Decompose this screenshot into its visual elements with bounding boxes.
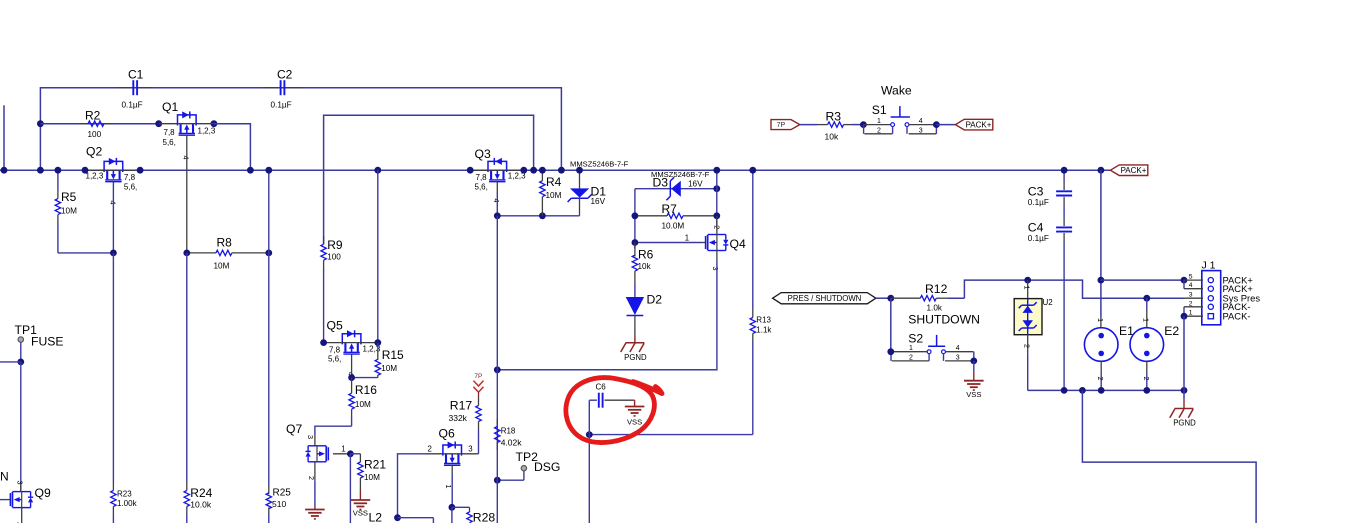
node C1 line left — [37, 167, 44, 174]
node R7 left — [632, 212, 639, 219]
svg-text:1: 1 — [1142, 318, 1151, 322]
node Q6 pin2 bottom — [394, 514, 401, 521]
svg-text:VSS: VSS — [966, 390, 981, 399]
svg-text:PGND: PGND — [1173, 419, 1196, 428]
text L2 — [369, 511, 383, 523]
wire D3 sub right vertical — [716, 170, 718, 228]
power VSS at R21 — [351, 500, 371, 518]
node PACK+ down rail — [1098, 167, 1105, 174]
resistor R15 — [375, 343, 404, 378]
node E2 pin1 junction — [1143, 295, 1150, 302]
node Q7 pin1 junction — [347, 450, 354, 457]
wire Q6 pin1 — [451, 465, 453, 507]
svg-text:R13: R13 — [756, 316, 771, 325]
resistor R23 — [111, 482, 138, 523]
node rail-left — [1, 167, 8, 174]
svg-text:10M: 10M — [546, 191, 562, 200]
svg-text:R12: R12 — [925, 282, 948, 296]
wire rail to Q5 — [377, 170, 379, 342]
node Q1 right — [211, 120, 218, 127]
net label PACK+ at S1 — [955, 119, 992, 130]
svg-text:5,6,: 5,6, — [328, 355, 341, 364]
wire D3 line — [635, 188, 717, 190]
wire C1-C2 top line — [40, 88, 561, 171]
svg-text:PRES / SHUTDOWN: PRES / SHUTDOWN — [788, 294, 862, 303]
svg-text:C6: C6 — [596, 382, 607, 391]
resistor R17 — [449, 397, 482, 454]
svg-text:1: 1 — [877, 118, 881, 125]
svg-text:2: 2 — [1142, 377, 1151, 381]
node Q5 right — [374, 339, 381, 346]
text N label — [0, 470, 9, 484]
svg-text:1: 1 — [444, 485, 453, 489]
node R4 bottom — [539, 212, 546, 219]
node hump-rail junction — [530, 167, 537, 174]
wire C6 node down — [588, 435, 590, 523]
wire J1 to PGND — [1183, 316, 1185, 408]
node bottom rail left — [494, 366, 501, 373]
node S2 right — [970, 358, 977, 365]
svg-text:16V: 16V — [688, 180, 703, 189]
node J1 pin5 junction — [1181, 277, 1188, 284]
wire Q9 pin2 down — [21, 508, 23, 523]
net label PRES/SHUTDOWN — [773, 293, 876, 304]
svg-text:7,8: 7,8 — [476, 173, 488, 182]
node R7 right — [713, 212, 720, 219]
power VSS at S2 — [964, 361, 984, 399]
transistor Q6 — [425, 427, 473, 489]
wire D3 sub left vertical — [634, 189, 636, 249]
resistor R18 — [495, 419, 523, 450]
node TP2 junction — [494, 477, 501, 484]
svg-text:3: 3 — [306, 435, 315, 439]
svg-text:10M: 10M — [355, 400, 371, 409]
svg-text:2: 2 — [428, 445, 432, 454]
svg-text:1: 1 — [909, 345, 913, 352]
wire Q7 pin1 — [333, 453, 350, 455]
svg-text:7,8: 7,8 — [329, 345, 341, 354]
wire PRES down to S2 — [890, 298, 892, 352]
transistor Q3 — [470, 147, 526, 203]
node Q1 left — [155, 120, 162, 127]
svg-text:U2: U2 — [1043, 298, 1054, 307]
transistor Q9 — [10, 481, 51, 523]
svg-text:7P: 7P — [474, 373, 482, 380]
svg-text:10M: 10M — [214, 262, 230, 271]
transistor Q7 — [286, 422, 346, 480]
node rail PGND — [1181, 387, 1188, 394]
component E1 — [1084, 317, 1134, 390]
wire Q5 left — [324, 342, 343, 344]
net label 7P — [771, 120, 800, 130]
wire Q4 pin2 — [716, 216, 718, 235]
svg-text:VSS: VSS — [627, 417, 642, 426]
svg-text:R24: R24 — [190, 486, 212, 500]
wire J1 pin4 tie — [1183, 280, 1185, 289]
capacitor C6 — [589, 382, 634, 434]
node R8 right — [265, 250, 272, 257]
svg-text:J 1: J 1 — [1202, 259, 1216, 271]
svg-text:1.00k: 1.00k — [117, 499, 138, 508]
svg-text:1: 1 — [1189, 310, 1193, 317]
wire R13 to C6 node — [589, 434, 753, 436]
svg-text:10.0M: 10.0M — [662, 221, 685, 230]
node Q3-pin4 junction — [494, 212, 501, 219]
svg-text:S1: S1 — [872, 103, 887, 117]
resistor R7 — [635, 202, 717, 230]
wire Q6 pin1 down — [451, 507, 453, 523]
component E2 — [1130, 298, 1179, 390]
switch S2 — [891, 332, 974, 362]
wire Q1 pin4 down — [186, 135, 188, 253]
svg-text:FUSE: FUSE — [31, 335, 64, 349]
node Q5 pin4 junction — [348, 374, 355, 381]
svg-text:5,6,: 5,6, — [124, 183, 137, 192]
wire PACK+ down — [1100, 170, 1102, 317]
capacitor C2 — [263, 68, 302, 110]
test point TP1 — [15, 323, 64, 362]
svg-text:R23: R23 — [117, 489, 132, 498]
wire R2 line — [40, 123, 158, 125]
svg-text:16V: 16V — [591, 197, 606, 206]
svg-text:10k: 10k — [825, 132, 839, 142]
svg-text:4: 4 — [182, 156, 191, 160]
component U2 TVS — [1014, 280, 1053, 390]
power PGND at D2 — [621, 343, 647, 362]
node R3-S1 — [860, 121, 867, 128]
svg-text:1,2,3: 1,2,3 — [86, 171, 104, 180]
node PACK+ J1 line — [1098, 277, 1105, 284]
svg-text:PGND: PGND — [624, 353, 647, 362]
svg-text:SHUTDOWN: SHUTDOWN — [908, 313, 980, 327]
svg-text:Q5: Q5 — [327, 319, 343, 333]
node rail downwire — [1079, 387, 1086, 394]
node Q4 gate junction — [632, 239, 639, 246]
net label PACK+ at rail — [1110, 165, 1147, 176]
svg-text:C3: C3 — [1028, 184, 1044, 198]
node rail E1 — [1098, 387, 1105, 394]
capacitor C1 — [118, 68, 152, 110]
resistor R25 — [266, 486, 291, 523]
wire TP1 down to Q9 — [20, 362, 22, 492]
node R25 rail — [265, 167, 272, 174]
wire Q7 pin1 down — [349, 454, 351, 523]
svg-text:R21: R21 — [364, 458, 386, 472]
svg-text:PACK+: PACK+ — [966, 120, 992, 129]
wire Q7 pin2 — [314, 462, 316, 510]
svg-text:PACK-: PACK- — [1223, 311, 1251, 322]
svg-text:R17: R17 — [450, 399, 473, 413]
node rail E2 — [1143, 387, 1150, 394]
wire R15 bottom — [352, 377, 378, 379]
svg-text:2: 2 — [1096, 377, 1105, 381]
capacitor C4 — [1028, 221, 1072, 244]
svg-text:PACK+: PACK+ — [1121, 166, 1147, 175]
node C6 junction — [586, 431, 593, 438]
wire TP1 left — [0, 361, 21, 363]
svg-text:Q4: Q4 — [730, 237, 746, 251]
svg-text:E2: E2 — [1164, 324, 1179, 338]
node R13 rail — [749, 167, 756, 174]
svg-text:2: 2 — [1189, 300, 1193, 307]
svg-text:3: 3 — [956, 355, 960, 362]
node PRES junction — [887, 295, 894, 302]
wire S1 to PACK+ — [936, 124, 955, 126]
svg-text:3: 3 — [919, 128, 923, 135]
svg-text:Q6: Q6 — [439, 427, 455, 441]
svg-text:0.1µF: 0.1µF — [122, 101, 143, 110]
svg-text:1: 1 — [685, 234, 689, 243]
resistor R5 — [55, 170, 77, 253]
wire Q3 net vertical — [496, 216, 498, 370]
wire main PACK+ rail — [0, 169, 1110, 171]
svg-text:7P: 7P — [777, 122, 786, 129]
wire Q4 pin3 down — [716, 251, 718, 370]
transistor Q2 — [85, 145, 140, 205]
svg-text:4: 4 — [919, 118, 923, 125]
switch S1 — [863, 103, 936, 135]
svg-text:0.1µF: 0.1µF — [1028, 234, 1049, 243]
resistor R24 — [184, 482, 213, 523]
svg-text:R7: R7 — [662, 202, 678, 216]
svg-text:Q9: Q9 — [35, 486, 51, 500]
wire Q3 pin4 down — [496, 182, 498, 216]
svg-text:10M: 10M — [61, 207, 77, 216]
svg-text:3: 3 — [468, 445, 472, 454]
diode D3 MMSZ5246B-7-F — [651, 170, 710, 200]
wire R24 column — [186, 253, 188, 482]
svg-text:R8: R8 — [217, 236, 233, 250]
svg-text:5,6,: 5,6, — [163, 138, 176, 147]
svg-text:4: 4 — [1189, 282, 1193, 289]
text SHUTDOWN — [908, 313, 980, 327]
resistor R6 — [632, 243, 653, 298]
node C2 line junction — [558, 167, 565, 174]
svg-text:R28: R28 — [473, 511, 496, 523]
wire PRES to R12 — [876, 297, 891, 299]
svg-text:Q7: Q7 — [286, 422, 302, 436]
svg-text:R18: R18 — [501, 426, 516, 435]
svg-text:Q1: Q1 — [162, 100, 178, 114]
annotation red circle — [566, 378, 662, 443]
svg-text:5: 5 — [1189, 274, 1193, 281]
node Q2 left pin — [82, 167, 89, 174]
wire bottom right run — [1082, 390, 1256, 523]
resistor R13 — [750, 170, 772, 434]
svg-text:VSS: VSS — [353, 509, 368, 518]
svg-text:510: 510 — [272, 499, 286, 509]
svg-text:0.1µF: 0.1µF — [1028, 198, 1049, 207]
node Q3 left pin — [467, 167, 474, 174]
svg-text:2: 2 — [877, 128, 881, 135]
svg-text:100: 100 — [327, 253, 341, 262]
wire R25 column — [268, 170, 270, 486]
svg-text:N: N — [0, 470, 9, 484]
transistor Q5 — [327, 319, 381, 377]
wire Q2 pin4 down — [112, 182, 114, 253]
diode D2 — [626, 293, 663, 343]
svg-text:D3: D3 — [653, 176, 669, 190]
wire R23 column — [112, 253, 114, 482]
node R4 rail — [539, 167, 546, 174]
svg-text:2: 2 — [1023, 344, 1032, 348]
wire left edge stub — [3, 105, 5, 170]
svg-text:DSG: DSG — [534, 460, 560, 474]
node D3 right — [713, 185, 720, 192]
svg-text:10M: 10M — [381, 364, 397, 373]
wire R12 up to U2 line — [964, 280, 1184, 298]
node J1 pin1 junction — [1181, 313, 1188, 320]
resistor R8 — [187, 236, 269, 271]
node Q2 right pin — [137, 167, 144, 174]
svg-text:4.02k: 4.02k — [501, 437, 523, 447]
wire 7P to R3 — [800, 124, 820, 126]
node U2 pin1 junction — [1024, 277, 1031, 284]
node R5 rail — [55, 167, 62, 174]
wire Q9 gate — [0, 499, 10, 501]
resistor R12 — [891, 282, 965, 313]
wire Q5 pin4 — [351, 354, 353, 378]
wire J1 pin2 tie — [1183, 307, 1185, 316]
transistor Q1 — [159, 100, 216, 160]
svg-text:3: 3 — [16, 481, 25, 485]
wire Q1 to rail — [214, 124, 251, 171]
wire Q6pin2 bottom run — [398, 518, 434, 523]
power PGND at J1 — [1170, 409, 1196, 428]
resistor R9 — [321, 236, 343, 343]
node Q1-rail junction — [247, 167, 254, 174]
svg-text:R16: R16 — [355, 383, 377, 397]
svg-text:3: 3 — [711, 267, 720, 271]
node TP1 junction — [17, 359, 24, 366]
capacitor C3 — [1028, 184, 1072, 207]
wire Q3source bottom rail — [497, 369, 717, 371]
svg-text:D2: D2 — [647, 293, 663, 307]
node S1 right — [933, 121, 940, 128]
wire Q6 pin3 — [462, 453, 479, 455]
node D1 rail — [576, 167, 583, 174]
svg-text:R5: R5 — [61, 190, 77, 204]
svg-text:1: 1 — [1023, 286, 1032, 290]
svg-text:C2: C2 — [277, 68, 293, 82]
wire Q3 source junction line — [497, 215, 579, 217]
svg-text:10M: 10M — [364, 473, 380, 482]
svg-text:R15: R15 — [382, 348, 404, 362]
wire C3C4 chain — [1063, 170, 1065, 390]
node rail-R9hump — [374, 167, 381, 174]
node R5-Q2 junction — [110, 250, 117, 257]
wire R16 to Q7 — [315, 426, 352, 446]
node R2 tap — [37, 120, 44, 127]
svg-text:S2: S2 — [908, 332, 923, 346]
node Q5 left — [320, 339, 327, 346]
svg-text:10.0k: 10.0k — [190, 499, 212, 509]
transistor Q4 — [685, 225, 746, 270]
svg-text:7,8: 7,8 — [164, 128, 176, 137]
svg-text:2: 2 — [909, 355, 913, 362]
wire R5 bottom to Q2 pin4 — [58, 252, 114, 254]
svg-text:7,8: 7,8 — [124, 173, 136, 182]
wire hump R9 to rail — [324, 115, 534, 244]
resistor R16 — [349, 378, 377, 427]
svg-text:R25: R25 — [273, 487, 292, 498]
power VSS at C6 — [625, 400, 645, 426]
svg-text:Q2: Q2 — [86, 145, 102, 159]
test point TP2 — [497, 450, 560, 480]
wire PGND bottom rail — [1028, 389, 1184, 391]
node R8 left — [183, 250, 190, 257]
svg-text:R4: R4 — [546, 175, 562, 189]
node Q6 pin1 junction — [449, 504, 456, 511]
svg-text:1: 1 — [341, 444, 345, 453]
connector J1 — [1184, 259, 1260, 325]
resistor R21 — [350, 454, 386, 500]
node C3 rail — [1061, 167, 1068, 174]
wire PACK+ to J1 pin5 — [1101, 279, 1184, 281]
svg-text:3: 3 — [1189, 292, 1193, 299]
svg-text:1,2,3: 1,2,3 — [198, 127, 216, 136]
svg-text:4: 4 — [956, 345, 960, 352]
wire Q3 net lower — [496, 370, 498, 523]
resistor R28 — [452, 507, 495, 523]
svg-text:L2: L2 — [369, 511, 383, 523]
svg-text:1: 1 — [1096, 318, 1105, 322]
svg-text:332k: 332k — [449, 413, 468, 423]
svg-text:C1: C1 — [128, 68, 144, 82]
svg-text:1.1k: 1.1k — [756, 326, 772, 335]
resistor R3 — [820, 109, 864, 141]
svg-text:Q3: Q3 — [475, 147, 491, 161]
resistor R2 — [80, 109, 112, 140]
svg-text:5,6,: 5,6, — [475, 182, 488, 191]
node S2 left — [887, 348, 894, 355]
wire Q6 pin2 net — [398, 454, 426, 518]
wire Q4 gate line — [635, 242, 706, 244]
svg-text:1.0k: 1.0k — [927, 304, 943, 313]
svg-text:0.1µF: 0.1µF — [271, 101, 292, 110]
resistor R4 — [540, 170, 562, 216]
svg-text:C4: C4 — [1028, 221, 1044, 235]
svg-text:Wake: Wake — [881, 84, 912, 98]
svg-text:100: 100 — [88, 130, 102, 139]
node rail C4 — [1061, 387, 1068, 394]
node Q3 right pin — [520, 167, 527, 174]
svg-text:R2: R2 — [85, 109, 101, 123]
svg-text:10k: 10k — [638, 262, 652, 271]
power VSS at Q7 — [305, 510, 325, 519]
diode D1 MMSZ5246B-7-F — [568, 160, 629, 216]
text Wake — [881, 84, 912, 98]
node D3sub rail — [713, 167, 720, 174]
svg-text:R6: R6 — [638, 247, 654, 261]
svg-text:R3: R3 — [826, 109, 842, 123]
net label 7P up-flag — [473, 373, 483, 397]
svg-text:R9: R9 — [327, 238, 343, 252]
